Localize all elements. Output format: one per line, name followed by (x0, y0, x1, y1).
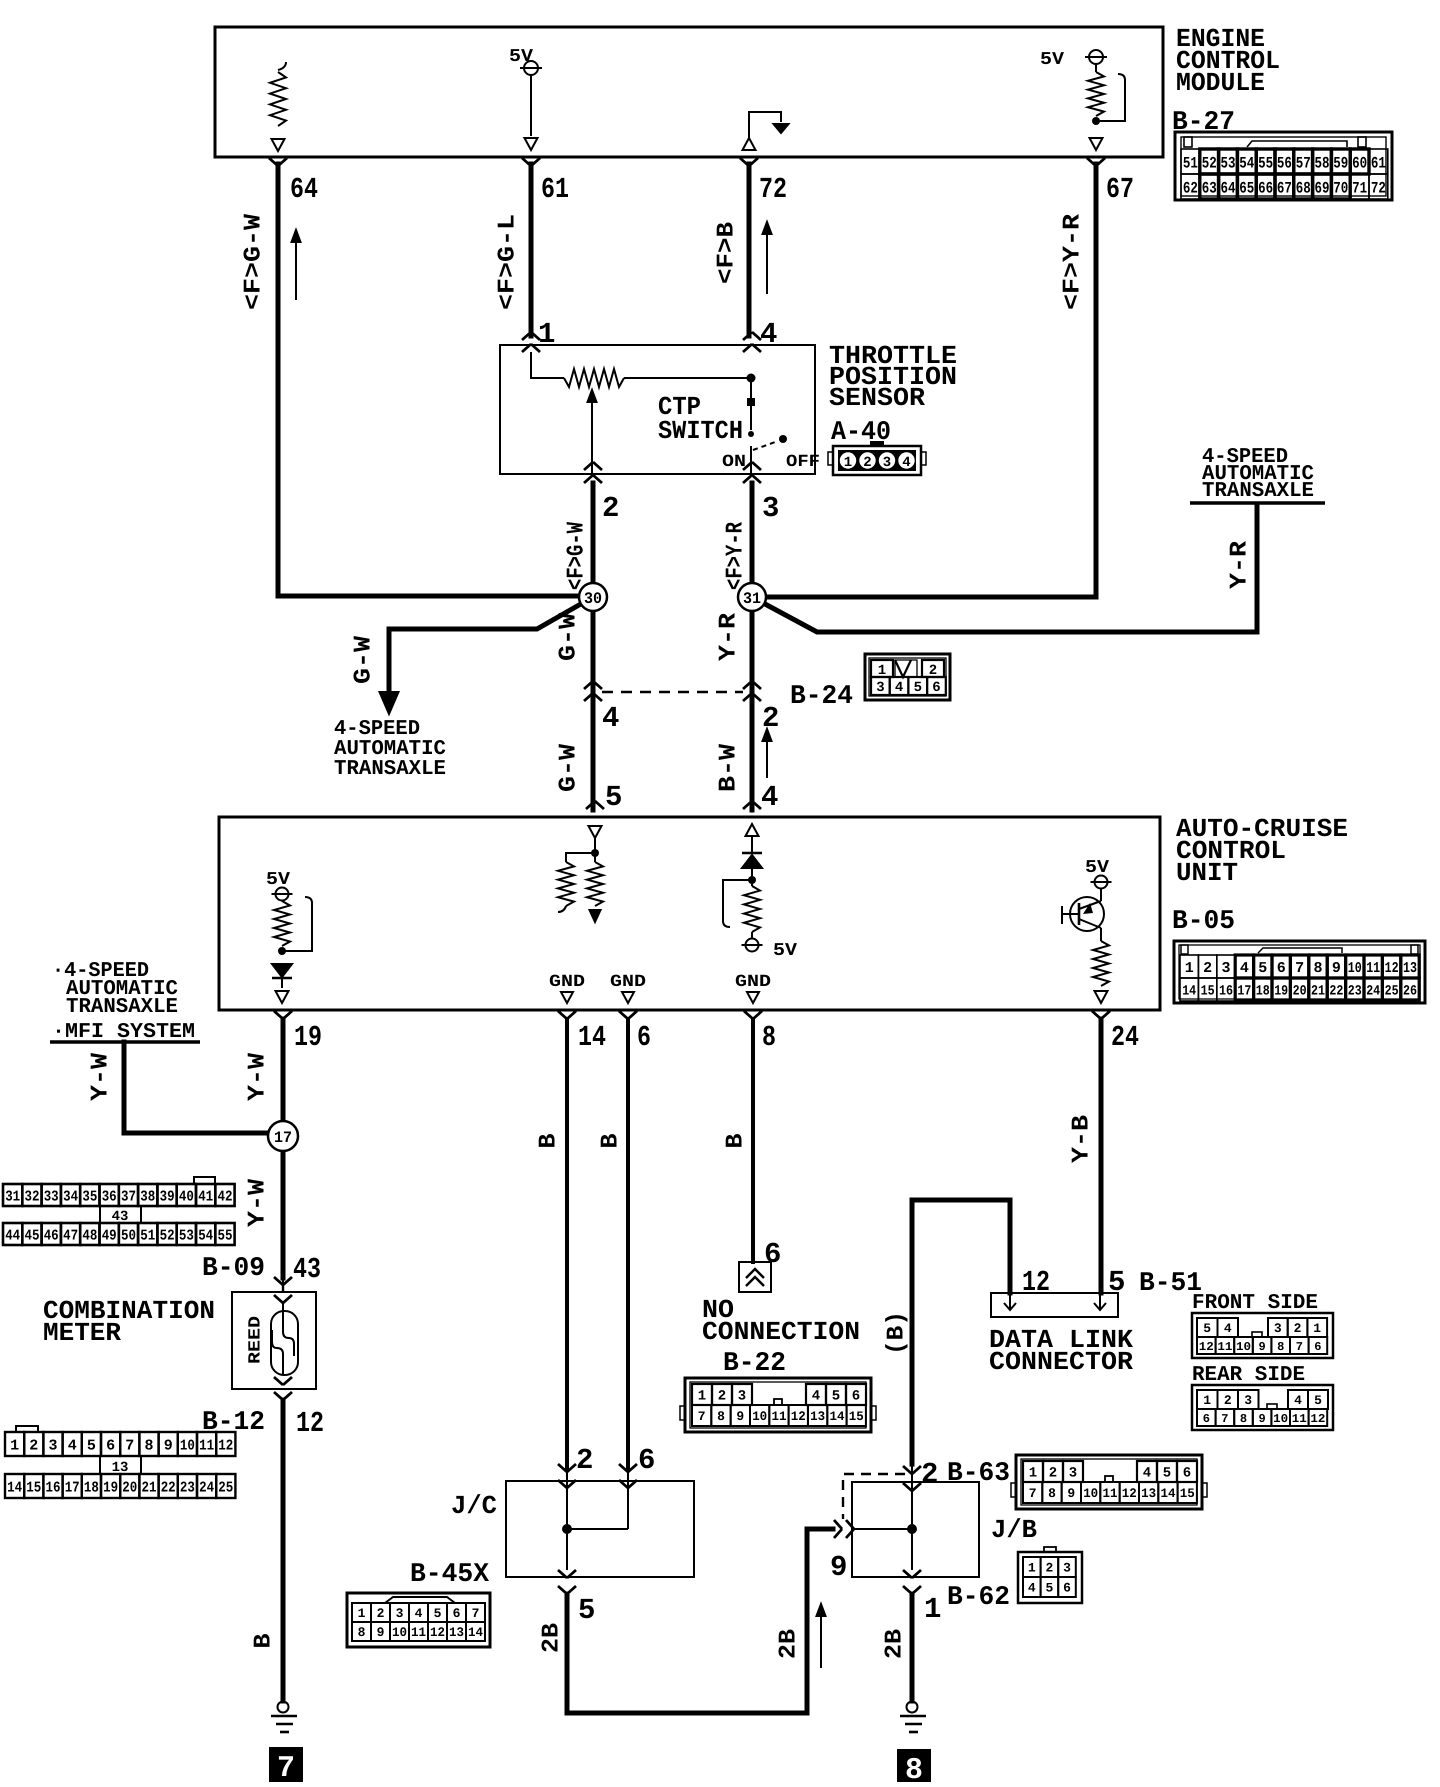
flow arrow on wire 64 (295, 238, 297, 300)
svg-text:52: 52 (1202, 154, 1217, 172)
svg-text:21: 21 (1311, 984, 1325, 1000)
svg-text:9: 9 (1258, 1340, 1265, 1354)
svg-text:24: 24 (199, 1479, 214, 1496)
svg-text:8: 8 (1240, 1412, 1247, 1426)
TPS potentiometer resistor (531, 352, 564, 378)
svg-text:6: 6 (1063, 1581, 1071, 1596)
connector B-63 crossing pin 2 (903, 1466, 921, 1474)
svg-text:5: 5 (434, 1606, 442, 1621)
svg-text:8: 8 (1048, 1486, 1056, 1501)
svg-text:6: 6 (637, 1021, 651, 1054)
svg-text:Y-W: Y-W (245, 1052, 272, 1101)
svg-text:31: 31 (743, 590, 761, 608)
svg-text:8: 8 (1313, 960, 1322, 977)
svg-text:56: 56 (1277, 154, 1292, 172)
svg-text:6: 6 (638, 1444, 655, 1477)
svg-text:17: 17 (274, 1129, 292, 1147)
svg-text:Y-W: Y-W (245, 1178, 272, 1227)
svg-text:61: 61 (1371, 154, 1386, 172)
svg-text:37: 37 (121, 1188, 136, 1205)
svg-text:17: 17 (65, 1479, 80, 1496)
svg-text:B: B (536, 1134, 563, 1149)
svg-text:14: 14 (468, 1625, 483, 1640)
svg-text:13: 13 (810, 1409, 825, 1424)
svg-text:12: 12 (1022, 1266, 1050, 1299)
svg-text:20: 20 (1293, 984, 1307, 1000)
connector B-12 crossing pin 12 (274, 1392, 292, 1400)
svg-text:40: 40 (179, 1188, 194, 1205)
svg-text:25: 25 (218, 1479, 233, 1496)
svg-text:4: 4 (602, 702, 619, 735)
engine control module box B-27 (215, 27, 1163, 157)
svg-text:31: 31 (5, 1188, 20, 1205)
svg-text:2: 2 (1203, 960, 1212, 977)
svg-text:GND: GND (735, 973, 771, 992)
svg-text:9: 9 (1067, 1486, 1075, 1501)
svg-text:Y-R: Y-R (1227, 540, 1254, 589)
ECM pin 64 (269, 158, 287, 166)
svg-text:7: 7 (1221, 1412, 1228, 1426)
svg-text:1: 1 (1029, 1466, 1037, 1482)
svg-text:5V: 5V (509, 47, 533, 67)
TPS wiper arrow (591, 400, 593, 474)
svg-text:1: 1 (538, 318, 555, 351)
svg-text:2: 2 (863, 455, 871, 471)
svg-text:3: 3 (883, 455, 891, 471)
svg-text:10: 10 (752, 1409, 767, 1424)
svg-text:53: 53 (179, 1227, 194, 1244)
svg-text:42: 42 (218, 1188, 233, 1205)
page marker 8 (897, 1749, 931, 1784)
cruise pin 14 (558, 1011, 576, 1019)
svg-text:1: 1 (1185, 960, 1194, 977)
svg-text:30: 30 (584, 590, 602, 608)
svg-text:<F>B: <F>B (714, 222, 741, 284)
svg-text:46: 46 (44, 1227, 59, 1244)
cruise pin 24 (1092, 1011, 1110, 1019)
svg-text:67: 67 (1106, 173, 1134, 206)
wire 2B J/B pin 1 to ground (910, 1594, 915, 1701)
svg-text:UNIT: UNIT (1176, 858, 1238, 888)
connector B-62 (1018, 1552, 1082, 1603)
svg-text:11: 11 (199, 1437, 214, 1454)
connector A-40 (833, 446, 921, 475)
svg-text:5V: 5V (1040, 50, 1064, 70)
svg-text:70: 70 (1333, 179, 1348, 197)
input network at cruise pin 4 (746, 824, 759, 836)
svg-text:3: 3 (762, 492, 779, 525)
svg-text:12: 12 (218, 1437, 233, 1454)
svg-text:2: 2 (921, 1458, 938, 1491)
svg-text:TRANSAXLE: TRANSAXLE (1202, 480, 1314, 503)
svg-text:4: 4 (1143, 1466, 1151, 1482)
svg-text:54: 54 (198, 1227, 213, 1244)
svg-text:64: 64 (290, 173, 318, 206)
svg-text:11: 11 (1366, 960, 1380, 977)
svg-text:72: 72 (1371, 179, 1386, 197)
wire B cruise pin 14 to J/C pin 2 (565, 1019, 569, 1467)
no connection terminal (739, 1262, 771, 1292)
svg-text:11: 11 (1103, 1486, 1118, 1501)
svg-text:18: 18 (1256, 984, 1270, 1000)
svg-text:10: 10 (1348, 960, 1362, 977)
svg-text:12: 12 (1385, 960, 1399, 977)
svg-text:32: 32 (25, 1188, 40, 1205)
svg-text:7: 7 (1029, 1486, 1037, 1501)
svg-text:26: 26 (1403, 984, 1417, 1000)
svg-text:11: 11 (411, 1625, 426, 1640)
svg-text:5: 5 (832, 1389, 840, 1405)
svg-text:REAR SIDE: REAR SIDE (1192, 1364, 1305, 1387)
svg-text:B: B (723, 1134, 750, 1149)
svg-text:GND: GND (549, 973, 585, 992)
svg-text:12: 12 (296, 1407, 324, 1440)
svg-text:4: 4 (895, 680, 903, 696)
svg-text:15: 15 (1180, 1486, 1195, 1501)
connector B-63 (1016, 1455, 1202, 1509)
svg-text:20: 20 (122, 1479, 137, 1496)
svg-text:Y-W: Y-W (88, 1052, 115, 1101)
svg-text:21: 21 (142, 1479, 157, 1496)
wire (F)B from ECM pin 72 to TPS pin 4 (747, 164, 752, 336)
wire Y-W from transaxle note to joint 17 (124, 1042, 272, 1133)
svg-text:33: 33 (44, 1188, 59, 1205)
svg-text:12: 12 (430, 1625, 445, 1640)
wire B from meter to ground (281, 1400, 286, 1701)
svg-text:5: 5 (914, 680, 922, 696)
svg-text:6: 6 (932, 680, 940, 696)
svg-text:1: 1 (358, 1606, 366, 1621)
svg-text:67: 67 (1277, 179, 1292, 197)
svg-text:4: 4 (761, 781, 778, 814)
ground (right) (907, 1702, 918, 1713)
wire G-W joint 30 to cruise pin 5 (591, 609, 596, 810)
svg-text:3: 3 (1063, 1561, 1071, 1576)
resistor inside ECM at pin 64 (278, 62, 286, 70)
svg-text:B-45X: B-45X (410, 1560, 490, 1590)
svg-text:4: 4 (902, 455, 910, 471)
svg-text:2B: 2B (776, 1629, 803, 1659)
svg-text:B: B (251, 1634, 278, 1649)
joint 31 (738, 583, 766, 611)
svg-text:CONNECTOR: CONNECTOR (989, 1347, 1133, 1377)
svg-text:J/B: J/B (991, 1515, 1037, 1545)
svg-text:7: 7 (277, 1752, 295, 1782)
svg-text:49: 49 (102, 1227, 117, 1244)
svg-text:3: 3 (1244, 1393, 1252, 1408)
cruise pin 19 (274, 1011, 292, 1019)
svg-text:1: 1 (10, 1437, 19, 1454)
svg-text:12: 12 (1122, 1486, 1137, 1501)
svg-text:METER: METER (43, 1318, 121, 1348)
svg-text:4: 4 (1028, 1581, 1036, 1596)
svg-text:TRANSAXLE: TRANSAXLE (66, 996, 178, 1019)
svg-text:50: 50 (121, 1227, 136, 1244)
svg-text:15: 15 (26, 1479, 41, 1496)
svg-text:11: 11 (1217, 1340, 1232, 1354)
svg-text:6: 6 (1183, 1466, 1191, 1482)
svg-text:<F>G-W: <F>G-W (564, 522, 591, 590)
svg-text:GND: GND (610, 973, 646, 992)
svg-text:G-W: G-W (351, 635, 378, 684)
svg-text:6: 6 (852, 1389, 860, 1405)
svg-text:9: 9 (830, 1551, 847, 1584)
svg-text:68: 68 (1296, 179, 1311, 197)
svg-text:19: 19 (294, 1021, 322, 1054)
ground (left) (278, 1702, 289, 1713)
svg-text:11: 11 (1292, 1412, 1307, 1426)
svg-text:1: 1 (1313, 1321, 1321, 1336)
svg-text:63: 63 (1202, 179, 1217, 197)
TPS pin 3 (743, 462, 761, 470)
svg-text:13: 13 (449, 1625, 464, 1640)
ECM pin 61 (522, 158, 540, 166)
flow arrow on B-W wire (766, 737, 768, 778)
svg-text:SENSOR: SENSOR (829, 383, 925, 413)
svg-text:55: 55 (218, 1227, 233, 1244)
svg-text:B: B (598, 1134, 625, 1149)
svg-text:1: 1 (1203, 1393, 1211, 1408)
svg-text:61: 61 (541, 173, 569, 206)
svg-text:9: 9 (164, 1437, 173, 1454)
svg-text:1: 1 (844, 455, 852, 471)
svg-text:Y-R: Y-R (716, 612, 743, 661)
svg-text:60: 60 (1352, 154, 1367, 172)
svg-text:2: 2 (377, 1606, 385, 1621)
svg-text:5: 5 (1108, 1266, 1125, 1299)
svg-text:FRONT SIDE: FRONT SIDE (1192, 1292, 1318, 1315)
svg-text:<F>G-W: <F>G-W (241, 213, 268, 310)
svg-text:43: 43 (293, 1253, 321, 1286)
svg-text:9: 9 (1258, 1412, 1265, 1426)
svg-text:7: 7 (1296, 1340, 1303, 1354)
svg-text:9: 9 (377, 1625, 385, 1640)
svg-text:35: 35 (82, 1188, 97, 1205)
svg-text:16: 16 (46, 1479, 61, 1496)
wire Y-W cruise pin 19 down to joint 17 (281, 1019, 286, 1278)
connector B-24 drawing (865, 654, 950, 700)
svg-text:<F>G-L: <F>G-L (495, 214, 522, 310)
svg-text:10: 10 (1236, 1340, 1251, 1354)
svg-text:3: 3 (876, 680, 884, 696)
svg-text:14: 14 (7, 1479, 22, 1496)
svg-text:62: 62 (1183, 179, 1198, 197)
wire (F)Y-R from ECM pin 67 to joint 31 (760, 164, 1096, 597)
svg-text:3: 3 (396, 1606, 404, 1621)
joint 30 (579, 583, 607, 611)
svg-text:B-62: B-62 (947, 1583, 1010, 1613)
svg-text:4: 4 (1224, 1321, 1232, 1336)
svg-text:(B): (B) (884, 1311, 911, 1355)
svg-text:<F>Y-R: <F>Y-R (1060, 213, 1087, 310)
wire B cruise pin 8 to no-connection (751, 1019, 755, 1262)
svg-text:17: 17 (1237, 984, 1251, 1000)
svg-text:36: 36 (102, 1188, 117, 1205)
svg-text:7: 7 (1295, 960, 1304, 977)
joint 17 (268, 1121, 298, 1151)
svg-text:72: 72 (759, 173, 787, 206)
svg-text:B-09: B-09 (202, 1254, 265, 1284)
svg-text:<F>Y-R: <F>Y-R (723, 522, 750, 590)
svg-text:2: 2 (718, 1389, 726, 1405)
svg-text:Y-B: Y-B (1069, 1115, 1096, 1163)
svg-text:5V: 5V (773, 941, 797, 961)
svg-text:2: 2 (1294, 1321, 1302, 1336)
TPS pin 2 (584, 462, 602, 470)
svg-text:1: 1 (924, 1593, 941, 1626)
wire Y-B cruise pin 24 to data link pin 5 (1099, 1019, 1104, 1293)
svg-text:51: 51 (140, 1227, 155, 1244)
svg-text:2: 2 (1224, 1393, 1232, 1408)
svg-text:39: 39 (160, 1188, 175, 1205)
svg-text:J/C: J/C (451, 1491, 497, 1521)
svg-text:6: 6 (764, 1238, 781, 1271)
svg-text:MODULE: MODULE (1176, 68, 1265, 98)
svg-text:5: 5 (605, 781, 622, 814)
svg-text:10: 10 (180, 1437, 195, 1454)
svg-text:CONNECTION: CONNECTION (702, 1317, 860, 1347)
svg-text:4: 4 (812, 1389, 820, 1405)
TPS pin 4 (743, 332, 761, 340)
J/B internal wires (911, 1490, 913, 1570)
svg-text:12: 12 (1310, 1412, 1325, 1426)
connector B-24 crossing (584, 681, 602, 689)
svg-text:13: 13 (1403, 960, 1417, 977)
svg-text:44: 44 (5, 1227, 20, 1244)
svg-text:7: 7 (125, 1437, 134, 1454)
flow arrow on wire 72 (766, 230, 768, 294)
J/B pin 9 entry (834, 1520, 842, 1538)
svg-text:45: 45 (25, 1227, 40, 1244)
svg-text:6: 6 (1277, 960, 1286, 977)
svg-text:23: 23 (180, 1479, 195, 1496)
svg-text:5: 5 (1258, 960, 1267, 977)
svg-text:14: 14 (1161, 1486, 1176, 1501)
svg-text:7: 7 (698, 1409, 706, 1424)
throttle position sensor box (500, 345, 815, 474)
svg-text:22: 22 (161, 1479, 176, 1496)
svg-text:57: 57 (1296, 154, 1311, 172)
svg-text:8: 8 (1277, 1340, 1284, 1354)
J/C internal wires (566, 1488, 568, 1570)
J/B box (852, 1482, 979, 1577)
svg-text:4: 4 (1240, 960, 1249, 977)
svg-text:4: 4 (760, 318, 777, 351)
svg-text:REED: REED (247, 1316, 266, 1364)
joint 30 branch arrow to 4-speed automatic transaxle (389, 597, 593, 692)
connector B-22 (685, 1378, 871, 1432)
svg-text:69: 69 (1315, 179, 1330, 197)
svg-text:6: 6 (106, 1437, 115, 1454)
svg-text:10: 10 (1083, 1486, 1098, 1501)
svg-text:OFF: OFF (786, 453, 820, 472)
svg-text:4: 4 (68, 1437, 77, 1454)
svg-text:10: 10 (1273, 1412, 1288, 1426)
wire (B) data link pin 12 to J/B pin 2 (912, 1200, 1010, 1464)
svg-text:G-W: G-W (556, 612, 583, 661)
ECM pin 72 (740, 158, 758, 166)
TPS pin 1 (522, 332, 540, 340)
svg-text:5: 5 (1045, 1581, 1053, 1596)
connector B-05 pin grid (1174, 941, 1425, 1003)
svg-text:12: 12 (1199, 1340, 1214, 1354)
svg-text:52: 52 (160, 1227, 175, 1244)
svg-text:9: 9 (1332, 960, 1341, 977)
svg-text:3: 3 (1221, 960, 1230, 977)
svg-text:1: 1 (1028, 1561, 1036, 1576)
joint 31 branch to 4-speed automatic transaxle (right) (752, 505, 1257, 632)
dashed branch into J/B (843, 1474, 905, 1519)
svg-text:5: 5 (578, 1594, 595, 1627)
svg-text:5: 5 (1203, 1321, 1211, 1336)
svg-text:22: 22 (1329, 984, 1343, 1000)
svg-text:9: 9 (736, 1409, 744, 1424)
svg-text:2B: 2B (539, 1623, 566, 1653)
svg-text:55: 55 (1258, 154, 1273, 172)
svg-text:38: 38 (140, 1188, 155, 1205)
CTP switch (750, 378, 752, 430)
svg-text:19: 19 (103, 1479, 118, 1496)
svg-text:3: 3 (48, 1437, 57, 1454)
cruise pin 4 entry (743, 801, 761, 809)
svg-text:14: 14 (1182, 984, 1196, 1000)
svg-text:8: 8 (717, 1409, 725, 1424)
svg-text:4: 4 (415, 1606, 423, 1621)
svg-text:16: 16 (1219, 984, 1233, 1000)
input network at cruise pin 5 (589, 826, 602, 838)
svg-text:6: 6 (453, 1606, 461, 1621)
svg-text:8: 8 (144, 1437, 153, 1454)
svg-text:5: 5 (1163, 1466, 1171, 1482)
svg-text:8: 8 (358, 1625, 366, 1640)
svg-text:6: 6 (1314, 1340, 1321, 1354)
svg-text:51: 51 (1183, 154, 1198, 172)
connector B-12 pin grid (5, 1432, 24, 1456)
svg-text:B-12: B-12 (202, 1408, 265, 1438)
svg-text:66: 66 (1258, 179, 1273, 197)
svg-text:7: 7 (472, 1606, 480, 1621)
svg-text:24: 24 (1111, 1021, 1139, 1054)
output symbol at ECM pin 72 (743, 138, 756, 150)
wire (F)G-W from ECM pin 64 to joint 30 (278, 164, 585, 596)
svg-text:2: 2 (1049, 1466, 1057, 1482)
cruise pin 8 (744, 1011, 762, 1019)
svg-text:5: 5 (87, 1437, 96, 1454)
svg-text:47: 47 (63, 1227, 78, 1244)
svg-text:18: 18 (84, 1479, 99, 1496)
svg-text:65: 65 (1239, 179, 1254, 197)
svg-text:14: 14 (578, 1021, 606, 1054)
svg-text:B-24: B-24 (790, 682, 853, 712)
svg-text:64: 64 (1221, 179, 1236, 197)
svg-text:5V: 5V (266, 870, 290, 890)
svg-text:10: 10 (392, 1625, 407, 1640)
svg-text:B-W: B-W (716, 743, 743, 792)
svg-text:3: 3 (1274, 1321, 1282, 1336)
cruise pin 5 entry (586, 801, 604, 809)
flow arrow on 2B wire (820, 1612, 822, 1668)
svg-text:14: 14 (830, 1409, 845, 1424)
svg-text:19: 19 (1274, 984, 1288, 1000)
svg-text:6: 6 (1203, 1412, 1210, 1426)
svg-text:B-22: B-22 (723, 1349, 786, 1379)
wire B cruise pin 6 to J/C pin 6 (626, 1019, 630, 1467)
svg-text:71: 71 (1352, 179, 1367, 197)
wire (F)Y-R TPS pin3 to joint 31 (750, 483, 755, 585)
J/C box (506, 1481, 694, 1577)
svg-text:25: 25 (1385, 984, 1399, 1000)
svg-text:3: 3 (738, 1389, 746, 1405)
